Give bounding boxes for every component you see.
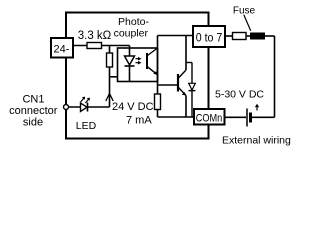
svg-text:External wiring: External wiring [222, 135, 291, 147]
svg-text:7 mA: 7 mA [126, 115, 152, 127]
svg-text:coupler: coupler [114, 27, 149, 39]
svg-text:0 to 7: 0 to 7 [196, 33, 223, 45]
svg-text:CN1: CN1 [22, 94, 44, 106]
svg-text:3.3 kΩ: 3.3 kΩ [78, 30, 112, 42]
svg-text:5-30 V DC: 5-30 V DC [215, 89, 264, 101]
svg-text:side: side [23, 117, 43, 129]
svg-text:connector: connector [9, 105, 58, 117]
svg-text:COMn: COMn [196, 113, 223, 125]
svg-text:24 V DC: 24 V DC [112, 101, 154, 113]
svg-text:Fuse: Fuse [233, 6, 256, 17]
svg-text:Photo-: Photo- [118, 16, 149, 28]
svg-text:LED: LED [76, 120, 97, 132]
svg-text:24-: 24- [54, 44, 70, 56]
